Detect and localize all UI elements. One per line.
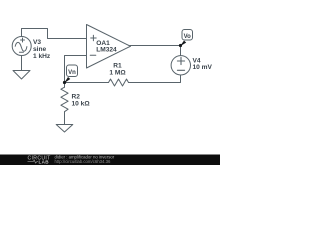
wire node Vn down to R2 — [64, 83, 66, 88]
wire R1 left to node Vn — [65, 82, 109, 84]
wire V3 bottom to ground — [21, 56, 23, 71]
svg-text:LAB: LAB — [39, 160, 50, 165]
node Vo — [179, 30, 193, 48]
svg-text:LM324: LM324 — [96, 47, 117, 54]
svg-text:10 kΩ: 10 kΩ — [72, 101, 91, 108]
footer bar — [0, 154, 220, 165]
svg-text:10 mV: 10 mV — [193, 64, 213, 71]
wire op-amp output to node Vo — [130, 45, 181, 47]
resistor R2 — [61, 87, 90, 112]
node Vn — [63, 65, 78, 84]
wire node Vn to op-amp inverting input — [65, 56, 87, 83]
ground (R2) — [56, 125, 73, 133]
op-amp OA1 LM324 — [87, 25, 131, 69]
voltage source V3 — [12, 37, 31, 56]
svg-text:sine: sine — [33, 46, 47, 53]
svg-text:V3: V3 — [33, 39, 41, 46]
wire V4 bottom to feedback rail — [129, 75, 181, 83]
ground (V3) — [13, 71, 30, 80]
svg-text:R2: R2 — [72, 94, 81, 101]
svg-text:1 MΩ: 1 MΩ — [109, 69, 126, 76]
svg-text:Vn: Vn — [68, 70, 76, 76]
voltage source V4 — [171, 56, 190, 75]
svg-text:Vo: Vo — [184, 34, 192, 40]
wire R2 bottom to ground — [64, 112, 66, 125]
resistor R1 — [109, 63, 129, 86]
wire node Vo down to V4 top — [180, 46, 182, 56]
label V3 value — [33, 39, 51, 60]
svg-text:http://circuitlab.com/c6h34.36: http://circuitlab.com/c6h34.36 — [55, 159, 111, 164]
wire V3 top to op-amp non-inverting input — [22, 29, 87, 39]
svg-text:1 kHz: 1 kHz — [33, 53, 51, 60]
label V4 value — [193, 58, 213, 72]
